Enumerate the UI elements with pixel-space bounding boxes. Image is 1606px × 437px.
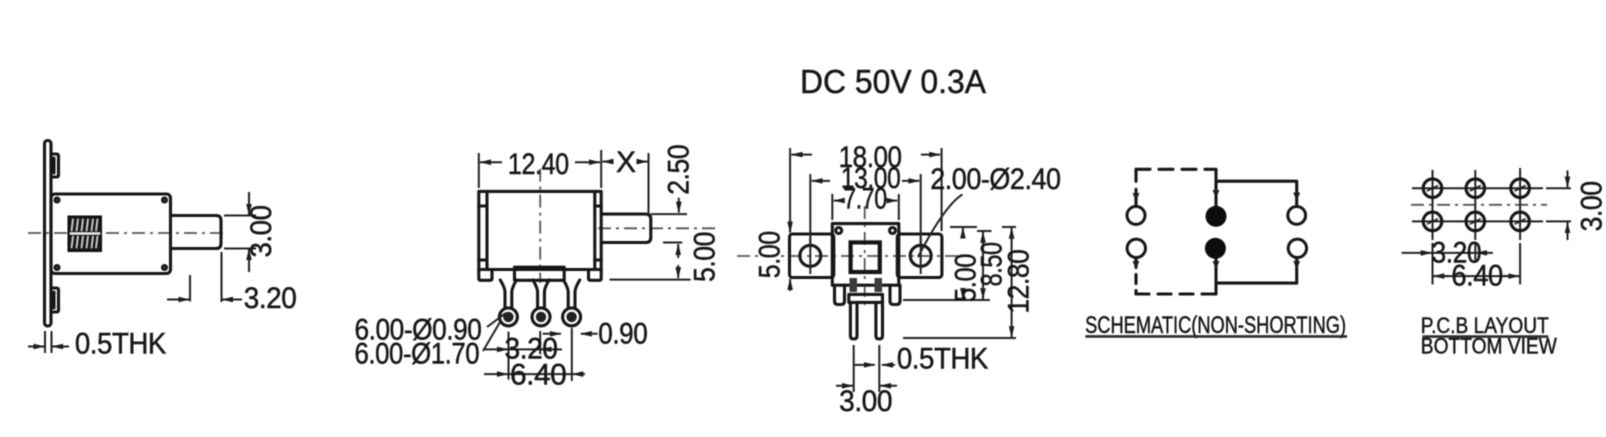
horizontal centerline (737, 255, 967, 257)
svg-text:7.70: 7.70 (843, 183, 887, 216)
dim 12.80 (1002, 226, 1016, 228)
svg-text:6.00-Ø1.70: 6.00-Ø1.70 (355, 338, 480, 371)
arrow above terminal 1R (1293, 193, 1300, 202)
pcb dim 3.00 arrows (1567, 171, 1569, 188)
dashed housing top edge (1136, 168, 1207, 171)
actuator shaft (side) (171, 216, 222, 249)
leader lines to pin 1 (487, 313, 506, 327)
terminal circle top-right (1288, 207, 1306, 225)
body (front) (479, 191, 601, 269)
dim 3.20 arrows (167, 299, 190, 301)
center base block (515, 270, 565, 281)
right wing (897, 234, 942, 278)
dim 3.00 ext lines (224, 215, 256, 217)
dim 12.40 ext lines (478, 153, 480, 188)
switch body (side) (51, 194, 171, 274)
left wing (790, 234, 834, 278)
right foot (589, 270, 602, 281)
svg-text:6.40: 6.40 (1451, 260, 1502, 293)
pad 5 (1466, 212, 1485, 231)
right mounting hole (910, 245, 931, 266)
terminal arrow lower-left (1133, 261, 1140, 270)
pad drill marks (1427, 186, 1526, 225)
dim 3.00 (view3) ext lines (853, 345, 855, 392)
arrow on pole 2 wire (1213, 261, 1220, 270)
solid bottom corner to pole 2 (1212, 258, 1216, 294)
dashed housing bottom edge (1136, 292, 1212, 295)
inner corner hooks (836, 228, 842, 234)
dim 12.40 arrows (480, 161, 502, 163)
schematic label underline (1085, 335, 1347, 338)
svg-text:0.5THK: 0.5THK (897, 343, 988, 376)
pin 2 rings (532, 308, 550, 326)
common pole contact top (1206, 206, 1227, 227)
svg-text:5.00: 5.00 (689, 232, 722, 282)
pcb label underline (1422, 335, 1548, 338)
dim 13.00 arrows (812, 180, 830, 182)
actuator square (851, 242, 880, 272)
dim 3.20 ext lines (508, 332, 510, 380)
pad 2 (1466, 179, 1485, 198)
pin shadows inside block (850, 278, 858, 292)
pad 1 (1423, 179, 1442, 198)
pin 1 (front) (500, 280, 516, 307)
dashed housing left upper (1134, 169, 1137, 192)
dim 7.70 arrows (834, 200, 844, 202)
dim 2.50 (651, 213, 687, 215)
mounting plate (0.5THK) (45, 141, 52, 327)
dim 0.5THK ext lines (44, 331, 46, 353)
hole leader line (918, 195, 962, 258)
pad 6 (1511, 212, 1530, 231)
vertical centerline (539, 169, 541, 283)
dim 5.00 left arrows (789, 219, 791, 233)
solid top corner to pole 1 (1207, 169, 1216, 206)
left foot (479, 270, 492, 281)
svg-text:2.50: 2.50 (663, 145, 696, 195)
dim 5.00 (view2) (663, 242, 682, 244)
wire pole1 to right terminal 1 (1216, 181, 1297, 205)
dim 0.5THK arrows (28, 346, 45, 348)
arrow below terminal 2R (1293, 261, 1300, 270)
centerline horizontal (28, 232, 228, 234)
pin B (top view) (876, 302, 883, 339)
dim 7.70 ext lines (831, 194, 833, 220)
right seam line (593, 191, 596, 269)
svg-text:5.00: 5.00 (754, 231, 787, 278)
terminal circle bottom-left (1127, 239, 1145, 257)
pad 3 (1511, 179, 1530, 198)
arrow on pole 1 (1213, 190, 1220, 199)
common pole contact bottom (1205, 238, 1226, 259)
vertical centerline (864, 206, 866, 310)
block bottom ext line (903, 299, 990, 301)
dim 13.00 ext lines (809, 174, 811, 244)
left mounting hole (800, 245, 821, 266)
dim 18.00 arrows (792, 154, 813, 156)
terminal arrow upper-left (1133, 193, 1140, 202)
dim 8.50 (977, 230, 992, 232)
pad 4 (1423, 212, 1442, 231)
pcb dim 6.40 ext line col3 (1519, 243, 1521, 284)
dim 3.00 (view3) arrows (836, 385, 853, 387)
wire pole2 to right terminal 2 (1216, 259, 1297, 284)
pcb centerline (1411, 204, 1547, 206)
dim 3.00 arrows (248, 192, 250, 215)
horizontal centerline through shaft (598, 227, 719, 229)
pcb dim 3.20 ext lines (1432, 243, 1434, 284)
svg-text:2.00-Ø2.40: 2.00-Ø2.40 (930, 163, 1060, 196)
svg-text:0.5THK: 0.5THK (75, 328, 166, 361)
terminal plate (849, 294, 883, 302)
pcb dim 3.20 arrows (1402, 252, 1432, 254)
plate top tab (51, 154, 59, 177)
dim 0.5THK (view3) arrows (853, 364, 875, 366)
svg-text:3.20: 3.20 (244, 282, 296, 315)
pin 3 (front) (564, 280, 580, 307)
pin tip ext line (903, 337, 1016, 339)
svg-text:DC 50V 0.3A: DC 50V 0.3A (800, 63, 986, 100)
svg-text:6.40: 6.40 (510, 359, 566, 392)
dim 3.20 arrows (484, 348, 508, 350)
svg-text:X: X (616, 146, 636, 179)
terminal circle bottom-right (1288, 239, 1306, 257)
shaft end ext line (648, 153, 650, 213)
dim 5.00 right (962, 228, 964, 238)
svg-text:12.80: 12.80 (1003, 250, 1036, 314)
svg-text:3.00: 3.00 (245, 206, 278, 258)
right bottom foot (890, 285, 900, 304)
left seam line (485, 191, 488, 269)
dashed housing left lower (1134, 259, 1137, 295)
pin 1 rings (499, 308, 517, 326)
pad row lines (1412, 187, 1543, 189)
pcb dim 3.00 ext lines (1546, 187, 1571, 189)
dim 0.90 arrows (543, 333, 561, 335)
plate bottom tab (51, 288, 59, 312)
left bottom foot (835, 285, 845, 304)
svg-text:3.00: 3.00 (1576, 181, 1606, 231)
pin A (top view) (850, 302, 857, 339)
pad column lines (1432, 170, 1434, 240)
label patch with hatch (69, 217, 102, 252)
shaft (front) (601, 214, 651, 242)
dim X arrows (603, 161, 613, 163)
body corner marks (55, 198, 59, 202)
pcb dim 6.40 arrows (1433, 275, 1449, 277)
svg-text:BOTTOM VIEW: BOTTOM VIEW (1421, 334, 1557, 359)
svg-text:0.90: 0.90 (598, 318, 647, 351)
dim 6.40 arrows (484, 373, 508, 375)
svg-text:3.00: 3.00 (839, 385, 892, 418)
svg-text:12.40: 12.40 (508, 148, 569, 181)
terminal circle top-left (1127, 206, 1145, 224)
pin 3 rings (563, 308, 581, 326)
pin 2 (front) (533, 280, 549, 307)
dim 3.20 ext lines (189, 275, 191, 302)
center frame (832, 224, 899, 286)
svg-text:SCHEMATIC(NON-SHORTING): SCHEMATIC(NON-SHORTING) (1085, 312, 1346, 339)
dim 18.00 ext lines (789, 148, 791, 231)
